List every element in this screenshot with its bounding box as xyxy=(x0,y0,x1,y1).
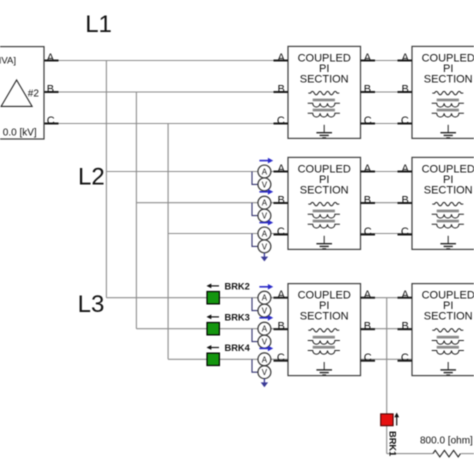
wire row1 between boxes phase A xyxy=(361,60,413,62)
coupled pi section row2 col2 xyxy=(398,157,474,249)
breaker BRK4 xyxy=(207,343,251,365)
wire L1 phase A xyxy=(44,60,288,62)
wire bus phase B vertical xyxy=(135,92,137,329)
BRK1 direction arrow xyxy=(396,416,398,426)
svg-text:L3: L3 xyxy=(78,291,105,318)
ammeter voltmeter L2 phase A xyxy=(252,158,273,191)
wire row3 between boxes phase C xyxy=(361,358,413,360)
svg-text:800.0 [ohm]: 800.0 [ohm] xyxy=(420,436,473,447)
ground arrow below L3 meters xyxy=(261,379,268,388)
svg-text:[MVA]: [MVA] xyxy=(0,56,16,67)
ammeter voltmeter L3 phase C xyxy=(252,346,273,379)
ammeter voltmeter L3 phase A xyxy=(252,284,273,317)
svg-text:BRK4: BRK4 xyxy=(225,343,251,353)
wire L3 phase A xyxy=(106,297,288,299)
svg-text:#2: #2 xyxy=(28,89,40,100)
wire L3 phase C xyxy=(168,358,288,360)
wire BRK1 vertical drop xyxy=(386,298,388,454)
wire bus phase A vertical xyxy=(105,61,107,298)
resistor 800 ohm xyxy=(420,436,473,457)
label L3 xyxy=(78,291,105,318)
breaker BRK1 red square xyxy=(381,414,393,426)
svg-text:L2: L2 xyxy=(78,163,105,190)
svg-text:B: B xyxy=(47,83,54,95)
wire row1 between boxes phase C xyxy=(361,123,413,125)
svg-text:0.0 [kV]: 0.0 [kV] xyxy=(3,127,37,138)
svg-text:A: A xyxy=(47,52,55,64)
coupled pi section row2 col1 xyxy=(274,157,376,249)
svg-text:BRK3: BRK3 xyxy=(225,313,250,323)
breaker BRK1 red xyxy=(381,413,399,457)
source U1 three-phase voltage source box xyxy=(0,47,55,139)
source stub A xyxy=(44,60,59,62)
wire row3 between boxes phase A xyxy=(361,297,413,299)
source stub C xyxy=(44,123,59,125)
label L2 xyxy=(78,163,105,190)
coupled pi section row1 col1 xyxy=(274,46,376,138)
ground arrow below L2 meters xyxy=(261,253,268,262)
wire L1 phase B xyxy=(44,91,288,93)
ammeter voltmeter L2 phase B xyxy=(252,189,273,222)
ammeter voltmeter L3 phase B xyxy=(252,315,273,348)
wire bus phase C vertical xyxy=(167,124,169,360)
svg-text:BRK2: BRK2 xyxy=(225,282,250,292)
svg-text:C: C xyxy=(47,115,55,127)
svg-text:L1: L1 xyxy=(85,11,112,38)
wire L2 phase C xyxy=(168,233,288,235)
wire L2 phase B xyxy=(136,202,288,204)
source box outline xyxy=(0,47,44,139)
wire after resistor xyxy=(461,453,474,455)
coupled pi section row3 col2 xyxy=(398,284,474,376)
wire L2 phase A xyxy=(106,171,288,173)
wire row1 between boxes phase B xyxy=(361,91,413,93)
wire L3 phase B xyxy=(136,328,288,330)
svg-text:BRK1: BRK1 xyxy=(388,431,398,456)
wire row2 between boxes phase B xyxy=(361,202,413,204)
breaker BRK3 xyxy=(207,313,250,335)
wire L1 phase C xyxy=(44,123,288,125)
coupled pi section row3 col1 xyxy=(274,284,376,376)
wire row2 between boxes phase A xyxy=(361,171,413,173)
wire row3 between boxes phase B xyxy=(361,328,413,330)
coupled pi section row1 col2 xyxy=(398,46,474,138)
source stub B xyxy=(44,91,59,93)
label L1 xyxy=(85,11,112,38)
breaker BRK2 xyxy=(207,282,250,304)
source delta winding symbol xyxy=(1,80,32,106)
wire bottom to resistor xyxy=(387,453,433,455)
resistor zigzag xyxy=(433,450,461,457)
wire row2 between boxes phase C xyxy=(361,233,413,235)
ammeter voltmeter L2 phase C xyxy=(252,220,273,253)
